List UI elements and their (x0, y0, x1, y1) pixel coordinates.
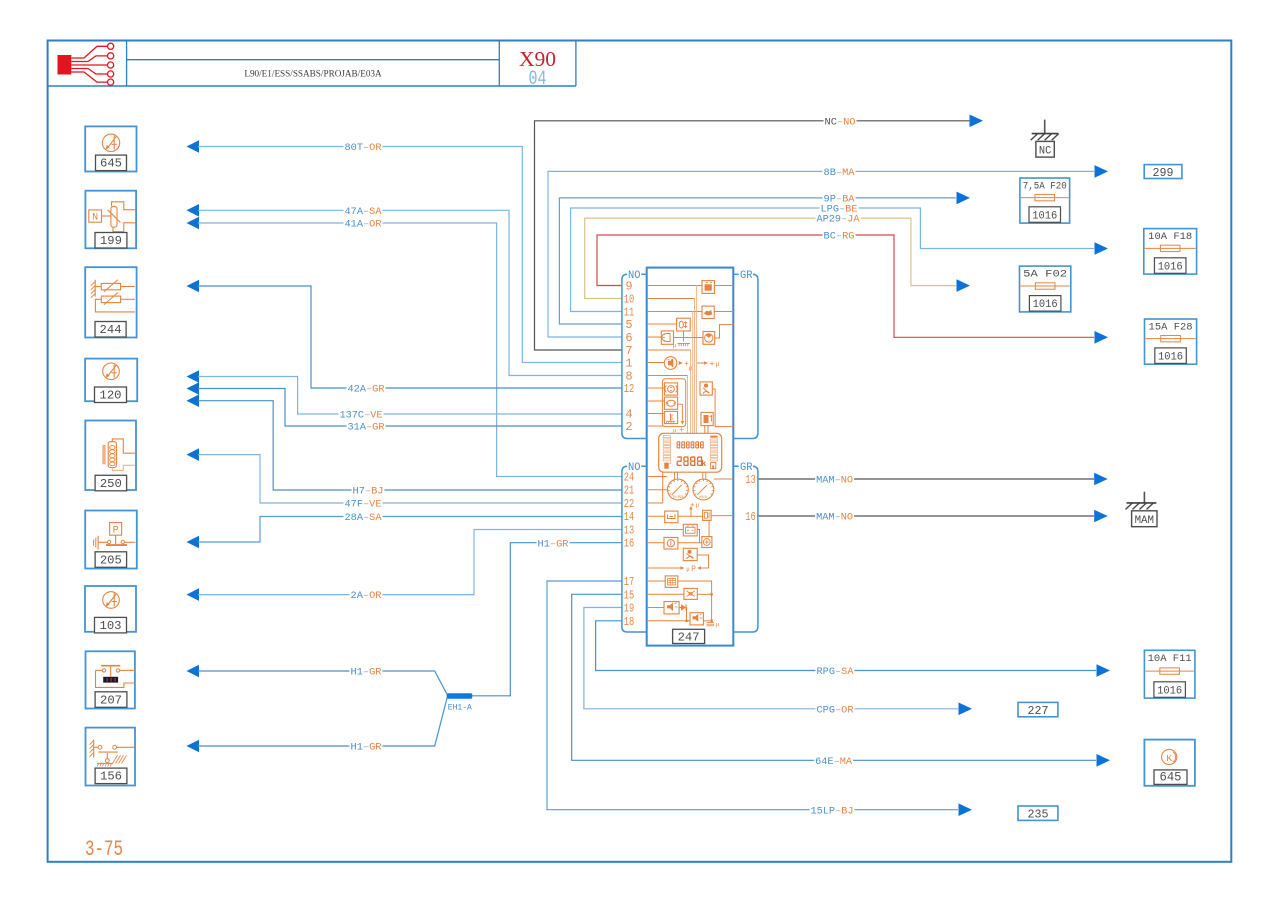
brake warning icon pin 12 (664, 383, 677, 395)
wire 9P-BA from pin 5 to fuse F20 (559, 192, 970, 324)
label NO bottom (628, 462, 641, 474)
connector bracket GR top (733, 274, 758, 438)
svg-text:EH1-A: EH1-A (448, 703, 473, 713)
svg-text:5A F02: 5A F02 (1023, 269, 1067, 280)
wire MAM-NO pin 16 to MAM ground (758, 510, 1108, 524)
svg-text:CPG–OR: CPG–OR (817, 704, 855, 716)
svg-text:H1–GR: H1–GR (351, 742, 383, 754)
label NO top (628, 270, 641, 282)
svg-text:1016: 1016 (1158, 261, 1183, 273)
svg-text:H1–GR: H1–GR (538, 538, 570, 550)
wire 15LP-BJ from pin 17 to 235 (547, 581, 972, 817)
component 205 (handbrake switch) (85, 511, 137, 569)
svg-text:TR/MIN: TR/MIN (672, 495, 683, 500)
component 120 (clock/switch) (85, 359, 137, 403)
title block header (48, 41, 576, 87)
component 645 top-left (clock/switch) (85, 126, 136, 171)
component 103 (clock/switch) (85, 586, 136, 633)
svg-text:42A–GR: 42A–GR (348, 384, 386, 396)
svg-text:19: 19 (624, 602, 635, 616)
svg-text:2A–OR: 2A–OR (351, 590, 383, 602)
svg-text:13: 13 (624, 524, 635, 538)
svg-text:18: 18 (624, 615, 635, 629)
svg-text:250: 250 (100, 477, 122, 491)
connector bracket GR bottom (733, 466, 758, 632)
ground NC (1031, 120, 1059, 158)
svg-text:64E–MA: 64E–MA (815, 756, 853, 768)
component 199 (gearbox N switch) (85, 191, 136, 249)
icon pin 13 (battery gauge) (683, 524, 699, 542)
svg-text:15: 15 (624, 588, 635, 602)
wire H1-GR from 207 to splice (187, 665, 448, 695)
svg-text:6: 6 (625, 331, 632, 345)
pin numbers bottom connector NO (624, 471, 635, 629)
component 250 (speed sensor) (85, 421, 136, 491)
svg-text:103: 103 (100, 619, 122, 633)
wire RPG-SA from pin 18 to fuse F11 (596, 621, 1110, 678)
svg-text:120: 120 (100, 389, 122, 403)
svg-text:10A F18: 10A F18 (1148, 231, 1192, 242)
cluster number 247 (673, 629, 705, 644)
component 207 (rheostat/display dimmer) (86, 651, 135, 708)
wire 31A-GR from 120 to pin 2 (187, 382, 622, 433)
icon right of pin 16 (702, 520, 712, 547)
svg-text:7,5A F20: 7,5A F20 (1023, 181, 1067, 192)
svg-text:H7–BJ: H7–BJ (353, 486, 384, 498)
connector 299 (1144, 165, 1182, 180)
cluster internal bus lines (688, 286, 697, 434)
fuse F02 5A (1020, 266, 1071, 312)
svg-text:RPG–SA: RPG–SA (817, 666, 855, 678)
svg-text:15A F28: 15A F28 (1149, 322, 1193, 333)
svg-text:1: 1 (625, 357, 632, 371)
connector bracket NO bottom (622, 466, 647, 632)
micro arrow below telltales (673, 404, 684, 435)
fuse F20 7.5A (1020, 178, 1070, 223)
icon pin 14 (wiper park) (665, 511, 703, 523)
icon pin 18 (buzzer) (690, 613, 720, 628)
connector 235 (1018, 806, 1058, 822)
display trip digits (677, 456, 707, 468)
micro P arrows (648, 565, 709, 574)
svg-text:299: 299 (1153, 167, 1174, 180)
svg-text:μ: μ (696, 502, 700, 509)
micro up arrow between gauges (689, 502, 699, 518)
svg-text:645: 645 (1160, 771, 1182, 785)
svg-text:17: 17 (624, 575, 635, 589)
svg-text:2: 2 (625, 420, 632, 434)
svg-text:645: 645 (100, 157, 122, 171)
wire 80T-OR from 645 to pin 1 (187, 140, 622, 362)
svg-text:MAM–NO: MAM–NO (816, 512, 853, 524)
svg-text:24: 24 (624, 471, 635, 485)
svg-text:13: 13 (745, 473, 756, 487)
icon right of pin 14 (703, 510, 734, 520)
svg-text:5: 5 (625, 318, 632, 332)
indicator icon row pin 5 (673, 318, 690, 349)
svg-text:KM/H: KM/H (699, 495, 707, 500)
wire BC-RG from pin 9 to fuse F28 (597, 230, 1108, 344)
svg-text:15LP–BJ: 15LP–BJ (811, 805, 854, 817)
svg-text:1016: 1016 (1158, 351, 1183, 363)
schematic title text (244, 69, 382, 79)
component 645 right (clock) (1144, 740, 1195, 786)
svg-text:N: N (92, 213, 98, 224)
LCD display block (659, 433, 722, 472)
fuel gauge icon right (701, 412, 713, 433)
wire 2A-OR from 103 to pin 13 (187, 530, 622, 603)
svg-text:μ: μ (716, 621, 720, 628)
svg-text:47A–SA: 47A–SA (345, 206, 383, 218)
svg-text:9: 9 (625, 280, 632, 294)
svg-text:205: 205 (100, 553, 122, 567)
svg-text:28A–SA: 28A–SA (345, 512, 383, 524)
cluster internal pin stubs (648, 286, 703, 621)
svg-text:16: 16 (745, 510, 756, 524)
svg-text:1016: 1016 (1033, 299, 1058, 311)
svg-text:GR: GR (740, 270, 753, 282)
svg-text:10: 10 (624, 293, 635, 307)
svg-text:1016: 1016 (1157, 685, 1182, 697)
svg-text:80T–OR: 80T–OR (345, 142, 383, 154)
display odometer digits (677, 441, 704, 448)
wire AP29-JA from pin 10 to fuse F02 (585, 213, 970, 299)
connector bracket NO top (622, 274, 647, 438)
icon pin 19 (buzzer) with diode (664, 602, 688, 623)
component 244 (sensor, twin thermistors) (85, 267, 136, 337)
wire 47A-SA from 199 to pin 8 (187, 204, 622, 376)
warning lamp battery (702, 281, 733, 294)
tachometer gauge (668, 472, 689, 500)
svg-text:MAM: MAM (1135, 515, 1154, 527)
warning lamp oil pressure (702, 306, 733, 318)
splice EH1-A (447, 693, 473, 712)
svg-text:+: + (710, 360, 715, 369)
svg-text:04: 04 (529, 68, 547, 91)
svg-text:AP29–JA: AP29–JA (817, 214, 861, 226)
svg-text:NC: NC (1039, 146, 1052, 158)
logo connector pictogram (58, 43, 114, 85)
svg-text:H1–GR: H1–GR (351, 667, 383, 679)
microprocessor arrow mark (697, 360, 720, 369)
wire 28A-SA from 205 to pin 14 (187, 511, 622, 548)
svg-text:MAM–NO: MAM–NO (816, 475, 853, 487)
svg-text:BC–RG: BC–RG (824, 231, 855, 243)
svg-text:P: P (691, 565, 696, 574)
pin numbers top connector NO (624, 280, 635, 435)
pin numbers right connector GR (745, 473, 756, 524)
wire LPG-BE from pin 11 to fuse F18 (571, 203, 1108, 312)
svg-text:137C–VE: 137C–VE (340, 410, 383, 422)
svg-text:207: 207 (100, 693, 122, 707)
wire 137C-VE from 120 to pin 4 (187, 370, 622, 421)
connector 227 (1018, 702, 1058, 718)
wire H1-GR from 156 to splice (187, 697, 448, 753)
svg-text:14: 14 (624, 510, 635, 524)
seat belt warning icon (700, 382, 733, 427)
icon pin 16 (coolant temp) (664, 537, 702, 549)
svg-text:NC–NO: NC–NO (825, 116, 856, 128)
svg-text:244: 244 (100, 323, 122, 337)
wire 41A-OR from 199 to pin 24 (187, 217, 622, 477)
instrument cluster 247 body (647, 268, 734, 646)
svg-text:8B–MA: 8B–MA (824, 167, 856, 179)
svg-text:1016: 1016 (1032, 210, 1057, 222)
wire CPG-OR from pin 19 to 227 (584, 608, 972, 717)
wire 8B-MA from pin 6 to 299 (548, 165, 1108, 337)
label GR bottom (740, 462, 753, 474)
svg-text:12: 12 (624, 382, 635, 396)
svg-text:P: P (113, 526, 119, 537)
speedometer gauge (693, 472, 714, 500)
svg-text:156: 156 (100, 770, 122, 784)
warning lamp alternator/fan (703, 325, 733, 345)
wire 47F-VE from 250 to pin 22 (187, 448, 622, 510)
coolant icon row (664, 397, 677, 409)
gauge feed lines (663, 472, 734, 503)
telltale group box (662, 379, 685, 427)
svg-text:10A F11: 10A F11 (1148, 653, 1192, 664)
svg-text:47F–VE: 47F–VE (345, 499, 382, 511)
svg-text:+: + (690, 502, 695, 510)
fuse F18 10A (1144, 229, 1197, 275)
svg-text:31A–GR: 31A–GR (348, 422, 386, 434)
svg-text:235: 235 (1028, 809, 1049, 822)
svg-text:21: 21 (624, 484, 635, 498)
svg-text:L90/E1/ESS/SSABS/PROJAB/E03A: L90/E1/ESS/SSABS/PROJAB/E03A (244, 69, 382, 79)
horn/buzzer icon pin 1 (664, 357, 692, 372)
svg-text:227: 227 (1028, 705, 1049, 718)
headlight icon pin 6 (661, 331, 703, 344)
svg-text:K: K (1166, 753, 1172, 764)
label GR top (740, 270, 753, 282)
svg-text:3-75: 3-75 (85, 837, 123, 862)
svg-text:μ: μ (716, 360, 720, 368)
icon pin 15 (684, 588, 713, 599)
wire H1-GR from pin 16 to splice (472, 538, 622, 696)
svg-text:247: 247 (678, 630, 700, 644)
wire H7-BJ from 120 to pin 21 (187, 394, 622, 497)
wire MAM-NO pin 13 to MAM ground (758, 473, 1108, 487)
svg-text:199: 199 (100, 234, 122, 248)
wire 64E-MA from pin 15 to 645 (572, 594, 1110, 768)
svg-text:22: 22 (624, 497, 635, 511)
svg-text:μ: μ (686, 566, 690, 573)
svg-text:41A–OR: 41A–OR (345, 219, 383, 231)
oil level icon pin 4 (664, 411, 677, 423)
wire NC-NO from pin 7 to NC ground (535, 115, 984, 351)
svg-text:16: 16 (624, 537, 635, 551)
icon pin 17 (display matrix) (665, 576, 711, 621)
fuse F28 15A (1145, 319, 1197, 364)
page number 3-75 (85, 837, 123, 862)
icon seat belt row (683, 548, 708, 568)
svg-text:μ: μ (689, 365, 693, 372)
component 156 (brake pedal switch) (86, 728, 136, 786)
sheet number 04 (529, 68, 547, 91)
svg-text:k: k (701, 459, 706, 469)
sheet code X90 (519, 47, 556, 71)
wire 42A-GR from 244 to pin 12 (187, 280, 622, 396)
ground MAM (1126, 492, 1158, 527)
fuse F11 10A (1144, 650, 1195, 698)
